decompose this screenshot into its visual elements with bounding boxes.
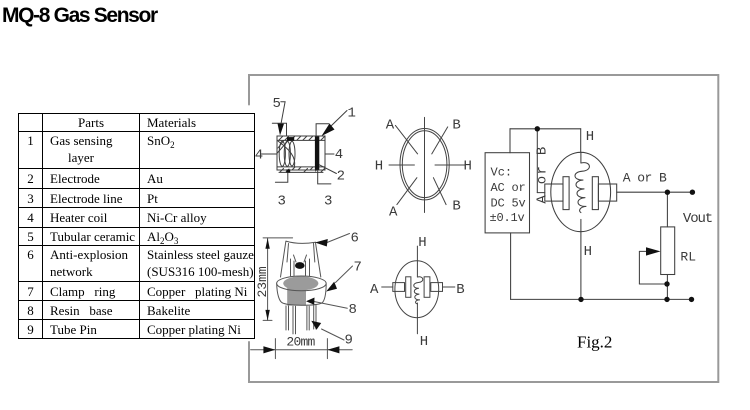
svg-text:A: A <box>386 118 395 134</box>
svg-text:4: 4 <box>335 147 343 163</box>
svg-text:A: A <box>389 205 398 221</box>
svg-text:Fig.2: Fig.2 <box>577 333 612 352</box>
svg-text:3: 3 <box>278 194 286 210</box>
svg-text:H: H <box>586 129 594 145</box>
svg-text:B: B <box>456 282 464 298</box>
svg-text:23mm: 23mm <box>255 266 270 297</box>
svg-text:6: 6 <box>351 231 359 247</box>
svg-text:B: B <box>452 198 460 214</box>
svg-text:A or B: A or B <box>535 145 551 203</box>
svg-text:7: 7 <box>354 260 362 276</box>
svg-text:RL: RL <box>680 250 696 265</box>
svg-text:H: H <box>464 159 472 175</box>
svg-text:1: 1 <box>348 106 356 122</box>
svg-text:±0.1v: ±0.1v <box>490 211 525 225</box>
svg-text:Vout: Vout <box>683 211 712 227</box>
svg-text:AC or: AC or <box>491 181 526 195</box>
svg-text:A or B: A or B <box>623 171 667 186</box>
svg-text:H: H <box>420 334 428 350</box>
svg-text:DC 5v: DC 5v <box>491 197 526 211</box>
svg-text:H: H <box>418 235 426 251</box>
svg-text:Vc:: Vc: <box>491 166 513 180</box>
svg-text:4: 4 <box>255 147 263 163</box>
svg-text:8: 8 <box>349 302 357 318</box>
svg-text:20mm: 20mm <box>286 335 315 350</box>
svg-text:H: H <box>584 244 592 260</box>
svg-text:B: B <box>452 118 460 134</box>
svg-text:9: 9 <box>345 333 353 349</box>
svg-text:5: 5 <box>273 96 281 112</box>
svg-text:2: 2 <box>337 169 345 185</box>
svg-text:H: H <box>375 159 383 175</box>
svg-text:3: 3 <box>324 194 332 210</box>
svg-text:A: A <box>370 282 379 298</box>
